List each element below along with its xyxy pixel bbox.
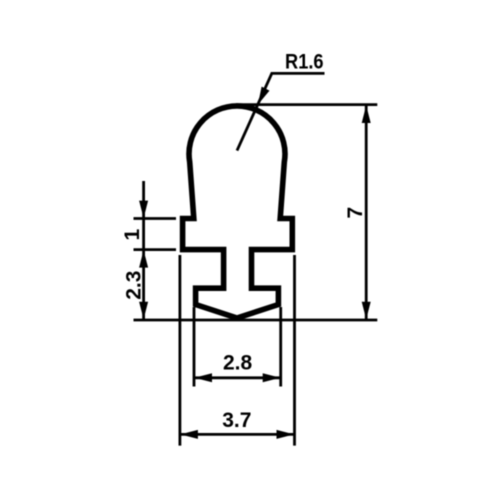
- svg-text:R1.6: R1.6: [285, 51, 324, 74]
- seal profile outline: [183, 106, 293, 318]
- svg-text:2.3: 2.3: [122, 271, 145, 300]
- dimension 7: vertical line: [365, 106, 368, 320]
- svg-text:1: 1: [121, 228, 144, 240]
- left dimension column vertical line: [142, 181, 145, 320]
- svg-text:7: 7: [344, 207, 367, 219]
- dimension 3.7: left extension line: [178, 255, 181, 446]
- svg-text:3.7: 3.7: [222, 409, 251, 432]
- extension line for crossbar top: [134, 217, 177, 220]
- dimension 1: down arrow above: [139, 201, 148, 219]
- svg-text:2.8: 2.8: [223, 351, 253, 374]
- baseline (bottom reference line): [134, 319, 378, 322]
- dimension 3.7: line: [180, 433, 295, 436]
- top horizontal dimension line (at dome top): [236, 103, 377, 106]
- dimension 7: top arrow: [362, 105, 371, 123]
- dimension 7: bottom arrow: [362, 302, 371, 320]
- dimension 3.7: right arrow: [277, 430, 295, 439]
- dimension 2.8: left extension line: [193, 307, 196, 387]
- dimension 3.7: right extension line: [293, 255, 296, 446]
- dimension 3.7: left arrow: [180, 430, 198, 439]
- dimension 2.3: up arrow: [139, 250, 148, 268]
- dimension 2.8: line: [194, 376, 281, 379]
- extension line for crossbar bottom: [134, 248, 177, 251]
- dimension 2.8: right arrow: [263, 373, 281, 382]
- radius leader R1.6: arrow: [258, 87, 270, 105]
- dimension 2.8: right extension line: [279, 307, 282, 387]
- dimension 2.3: down arrow: [139, 302, 148, 320]
- dimension 2.8: left arrow: [194, 373, 212, 382]
- radius leader R1.6: line: [237, 73, 325, 150]
